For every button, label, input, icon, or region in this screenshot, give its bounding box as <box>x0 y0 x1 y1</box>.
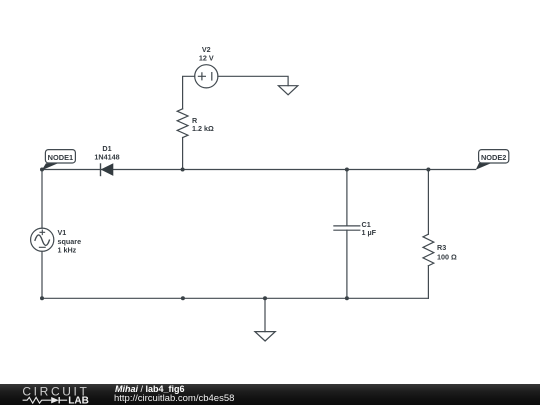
label V2 value <box>199 45 214 63</box>
footer bar <box>0 384 540 405</box>
CircuitLab logo <box>0 384 100 405</box>
node flag NODE2 <box>476 150 509 170</box>
wire: R3 branch above resistor <box>427 170 429 235</box>
footer title text <box>113 383 115 385</box>
voltage source V1 <box>31 228 54 251</box>
junction dot at NODE1 corner <box>40 168 44 172</box>
junction dot at bottom left corner <box>40 296 44 300</box>
voltage source V2 <box>195 65 218 88</box>
wire: bottom ground stub <box>264 298 266 331</box>
svg-text:1.2 kΩ: 1.2 kΩ <box>192 124 214 133</box>
svg-text:1N4148: 1N4148 <box>94 152 119 161</box>
junction dot at R / main wire <box>181 168 185 172</box>
resistor R <box>177 109 188 138</box>
wire: main horizontal NODE1 to NODE2 <box>42 169 476 171</box>
wire: bottom horizontal rail <box>42 297 428 299</box>
capacitor C1 <box>334 226 360 230</box>
ground (top right, V2) <box>278 86 297 95</box>
label C1 value <box>362 220 377 237</box>
node flag NODE1 <box>42 150 76 171</box>
wire: R branch below resistor to main wire <box>182 138 184 170</box>
svg-text:R3: R3 <box>437 243 446 252</box>
junction dot at C1 bottom <box>345 296 349 300</box>
wire: left branch above V1 <box>41 170 43 229</box>
ground (bottom center) <box>255 332 275 341</box>
wire: V2 right to ground <box>218 76 288 85</box>
svg-text:12 V: 12 V <box>199 54 214 63</box>
svg-text:100 Ω: 100 Ω <box>437 252 457 261</box>
svg-text:1 kHz: 1 kHz <box>58 245 77 254</box>
junction dot at R3 / main wire <box>426 168 430 172</box>
label V1 value <box>58 228 82 254</box>
svg-text:NODE2: NODE2 <box>481 153 506 162</box>
svg-text:LAB: LAB <box>68 396 89 405</box>
wire: R branch above resistor to V2 corner <box>183 76 195 109</box>
wire: C1 branch above capacitor <box>346 170 348 226</box>
junction dot at bottom ground <box>263 296 267 300</box>
wire: left branch below V1 <box>41 251 43 298</box>
junction dot on bottom rail below R <box>181 296 185 300</box>
diode D1 1N4148 <box>101 163 113 176</box>
label D1 value <box>94 144 119 161</box>
resistor R3 <box>423 234 434 266</box>
svg-text:1 µF: 1 µF <box>362 228 377 237</box>
wire: C1 branch below capacitor <box>346 230 348 298</box>
junction dot at C1 / main wire <box>345 168 349 172</box>
wire: R3 branch below resistor <box>427 266 429 299</box>
label R value <box>192 116 214 133</box>
label R3 value <box>437 243 457 261</box>
svg-text:NODE1: NODE1 <box>48 153 73 162</box>
